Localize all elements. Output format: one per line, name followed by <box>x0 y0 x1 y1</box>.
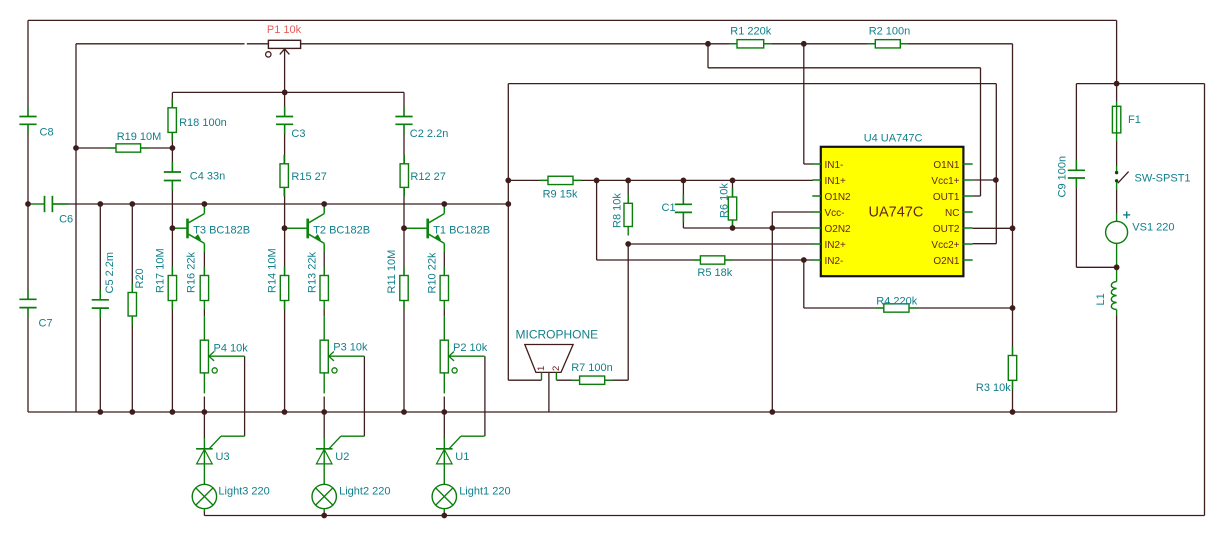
svg-text:Light3 220: Light3 220 <box>218 486 269 498</box>
svg-text:Light1 220: Light1 220 <box>459 486 510 498</box>
svg-text:C8: C8 <box>40 127 54 139</box>
svg-text:IN2+: IN2+ <box>825 240 847 251</box>
svg-text:IN1-: IN1- <box>825 160 844 171</box>
svg-text:U2: U2 <box>335 451 349 463</box>
svg-text:R5 18k: R5 18k <box>697 267 732 279</box>
svg-text:OUT2: OUT2 <box>933 224 960 235</box>
svg-text:C3: C3 <box>291 128 305 140</box>
svg-text:R9 15k: R9 15k <box>543 189 578 201</box>
svg-text:R16 22k: R16 22k <box>186 252 198 293</box>
svg-text:R1 220k: R1 220k <box>730 26 771 38</box>
svg-text:O2N1: O2N1 <box>933 256 960 267</box>
svg-text:C4 33n: C4 33n <box>190 171 225 183</box>
svg-text:R20: R20 <box>134 268 146 288</box>
svg-text:NC: NC <box>945 208 959 219</box>
svg-text:R13 22k: R13 22k <box>306 252 318 293</box>
svg-text:P1 10k: P1 10k <box>267 24 302 36</box>
svg-text:C2 2.2n: C2 2.2n <box>410 128 449 140</box>
svg-text:R19 10M: R19 10M <box>117 131 162 143</box>
svg-text:U4 UA747C: U4 UA747C <box>864 133 923 145</box>
svg-text:R18 100n: R18 100n <box>179 117 227 129</box>
svg-text:R14 10M: R14 10M <box>267 248 279 293</box>
svg-text:R12 27: R12 27 <box>410 171 445 183</box>
svg-text:U1: U1 <box>455 451 469 463</box>
svg-text:O1N2: O1N2 <box>825 192 852 203</box>
svg-text:P4 10k: P4 10k <box>214 343 249 355</box>
svg-text:C9 100n: C9 100n <box>1057 156 1069 198</box>
svg-text:SW-SPST1: SW-SPST1 <box>1135 173 1191 185</box>
svg-text:P3 10k: P3 10k <box>333 342 368 354</box>
svg-text:O2N2: O2N2 <box>825 224 852 235</box>
svg-text:C7: C7 <box>39 318 53 330</box>
svg-text:Vcc-: Vcc- <box>825 208 845 219</box>
svg-text:IN2-: IN2- <box>825 256 844 267</box>
svg-text:T2 BC182B: T2 BC182B <box>313 225 370 237</box>
svg-text:R6 10k: R6 10k <box>718 183 730 218</box>
svg-text:R3 10k: R3 10k <box>976 382 1011 394</box>
svg-text:R17 10M: R17 10M <box>155 248 167 293</box>
svg-text:Light2 220: Light2 220 <box>339 486 390 498</box>
svg-text:R2 100n: R2 100n <box>869 26 911 38</box>
svg-text:O1N1: O1N1 <box>933 160 960 171</box>
svg-text:IN1+: IN1+ <box>825 176 847 187</box>
svg-text:C6: C6 <box>59 214 73 226</box>
svg-text:C1: C1 <box>662 202 676 214</box>
svg-text:L1: L1 <box>1095 293 1107 305</box>
svg-text:Vcc2+: Vcc2+ <box>931 240 959 251</box>
svg-text:2: 2 <box>551 366 562 371</box>
svg-text:U3: U3 <box>216 451 230 463</box>
svg-text:P2 10k: P2 10k <box>453 342 488 354</box>
svg-text:R11 10M: R11 10M <box>386 250 398 294</box>
svg-text:OUT1: OUT1 <box>933 192 960 203</box>
svg-text:T3 BC182B: T3 BC182B <box>193 225 250 237</box>
svg-text:F1: F1 <box>1128 114 1141 126</box>
svg-text:MICROPHONE: MICROPHONE <box>516 328 599 342</box>
svg-text:T1 BC182B: T1 BC182B <box>433 225 490 237</box>
svg-text:R4 220k: R4 220k <box>876 296 917 308</box>
svg-text:C5 2.2m: C5 2.2m <box>104 252 116 294</box>
svg-text:R15 27: R15 27 <box>291 171 326 183</box>
svg-text:UA747C: UA747C <box>869 205 924 221</box>
svg-text:Vcc1+: Vcc1+ <box>931 176 959 187</box>
svg-text:R8 10k: R8 10k <box>611 193 623 228</box>
svg-text:1: 1 <box>536 366 547 371</box>
svg-text:R10 22k: R10 22k <box>426 252 438 293</box>
svg-text:R7 100n: R7 100n <box>571 362 613 374</box>
svg-text:VS1 220: VS1 220 <box>1132 222 1174 234</box>
